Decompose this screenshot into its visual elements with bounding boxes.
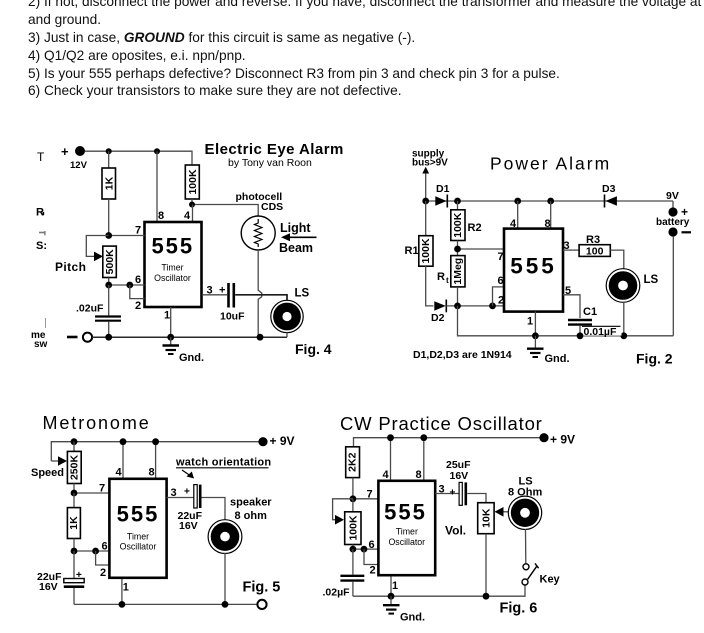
svg-text:10uF: 10uF [220, 311, 245, 323]
node pin8 top [154, 148, 160, 154]
svg-text:Vol.: Vol. [445, 524, 466, 538]
node pin1 MT [119, 601, 126, 608]
op 555 U-PA box [504, 229, 563, 312]
capacitor 25uF [459, 482, 466, 505]
svg-text:3: 3 [564, 240, 570, 252]
label supply bus [412, 149, 448, 169]
svg-text:bus>9V: bus>9V [412, 158, 448, 169]
pin 1 lead [164, 307, 171, 337]
svg-text:S:: S: [36, 240, 47, 252]
wire cap to speaker MT [202, 498, 226, 521]
diode D2 [431, 300, 446, 325]
resistor 1K [102, 168, 116, 199]
svg-text:555: 555 [117, 502, 160, 527]
svg-text:Gnd.: Gnd. [179, 352, 204, 364]
pin 7 wire CW [353, 489, 379, 501]
svg-text:7: 7 [135, 225, 141, 237]
svg-text:8: 8 [149, 467, 155, 479]
svg-text:3: 3 [207, 285, 213, 297]
node cap bottom [105, 334, 112, 341]
wire D2 to pin2 [446, 305, 504, 307]
svg-text:1K: 1K [68, 516, 80, 530]
svg-text:by Tony van Roon: by Tony van Roon [228, 157, 312, 169]
pin 2 wire MT [96, 551, 110, 579]
wire pot bottom CW [352, 545, 354, 550]
capacitor 22uF MT left [37, 551, 84, 604]
wire top bus [426, 200, 673, 202]
wire Rt bottom [457, 287, 459, 306]
svg-text:Fig. 2: Fig. 2 [636, 351, 673, 367]
svg-text:4: 4 [116, 467, 123, 479]
terminal open MT [257, 600, 266, 609]
svg-text:LS: LS [644, 274, 659, 286]
resistor 2K2 [346, 447, 360, 478]
svg-text:LS: LS [295, 288, 310, 300]
terminal +9V CW [539, 433, 575, 447]
node pin8 top [547, 198, 554, 205]
node D2/Rt [454, 303, 461, 310]
wire 1K bottom [73, 539, 75, 552]
pin 4 lead CW [383, 438, 391, 481]
svg-text:2: 2 [100, 567, 106, 579]
labels 25uF 16V [446, 459, 471, 482]
svg-text:5: 5 [565, 285, 571, 297]
pin 5 wire [563, 285, 580, 318]
node 10K bottom [483, 593, 490, 600]
speaker LS [271, 288, 310, 333]
wire cap to pot CW [467, 494, 486, 503]
svg-text:100K: 100K [420, 238, 432, 264]
op 555 U-CW box [378, 481, 435, 575]
svg-text:C1: C1 [583, 306, 597, 318]
svg-text:6: 6 [102, 541, 108, 553]
svg-text:2: 2 [135, 300, 141, 312]
svg-text:battery: battery [656, 217, 690, 228]
wire pot bottom [108, 278, 110, 286]
pin 7 wire [109, 225, 145, 237]
svg-text:1K: 1K [103, 176, 115, 190]
resistor 1K MT [67, 493, 80, 539]
svg-text:1: 1 [392, 580, 398, 592]
op 555 U-EE box [145, 222, 202, 307]
node photocell bottom [257, 334, 264, 341]
svg-text:Gnd.: Gnd. [400, 612, 425, 624]
svg-text:4: 4 [383, 469, 390, 481]
svg-text:7: 7 [367, 489, 373, 501]
svg-text:0.01µF: 0.01µF [584, 326, 617, 338]
svg-text:Timer: Timer [396, 527, 418, 537]
node R2/Rt [454, 246, 461, 253]
wire bottom rail [92, 336, 287, 338]
svg-text:R2: R2 [468, 222, 482, 234]
ground [163, 337, 205, 364]
speaker CW [508, 496, 541, 529]
svg-text:16V: 16V [450, 470, 469, 482]
svg-text:3: 3 [439, 484, 445, 496]
svg-text:6: 6 [369, 539, 375, 551]
svg-text:+ 9V: + 9V [550, 433, 575, 447]
node ground [167, 334, 174, 341]
svg-text:Oscillator: Oscillator [154, 273, 191, 283]
wire battery minus down [672, 237, 674, 336]
capacitor .02uF [76, 285, 121, 337]
svg-text:Power Alarm: Power Alarm [490, 153, 611, 173]
node pin2 branch MT [92, 548, 99, 555]
svg-text:D1: D1 [436, 183, 450, 195]
svg-text:Fig. 6: Fig. 6 [500, 601, 538, 617]
capacitor .02uF CW [323, 549, 365, 598]
svg-text:2: 2 [370, 565, 376, 577]
pin 6 wire [109, 274, 145, 286]
svg-text:100K: 100K [187, 169, 199, 195]
svg-text:2K2: 2K2 [347, 452, 359, 471]
svg-text:8: 8 [158, 210, 164, 222]
node pin4 CW [387, 434, 394, 441]
node pin6/pot [105, 282, 112, 289]
svg-text:Beam: Beam [279, 241, 313, 255]
svg-text:T: T [37, 150, 45, 164]
svg-text:Electric Eye Alarm: Electric Eye Alarm [205, 141, 344, 158]
svg-text:1: 1 [123, 582, 129, 594]
capacitor 10uF [220, 283, 245, 323]
svg-text:100K: 100K [347, 515, 359, 541]
svg-text:.02µF: .02µF [323, 587, 351, 599]
svg-text:555: 555 [384, 500, 427, 525]
svg-text:.02uF: .02uF [76, 303, 104, 315]
pot wiper arrow CW [333, 499, 353, 525]
wire speaker bottom [286, 333, 288, 338]
svg-text:Timer: Timer [127, 532, 149, 542]
diode D1 [435, 183, 449, 208]
potentiometer 250K [31, 442, 81, 484]
wire 10K bottom CW [485, 534, 487, 597]
svg-text:R1: R1 [405, 245, 419, 257]
svg-text:Gnd.: Gnd. [545, 353, 570, 365]
wire 1K to pin7 node [108, 199, 110, 236]
wire R1 to D2 [426, 266, 434, 306]
pin 8 lead [545, 201, 551, 230]
wire photocell down with jog [258, 250, 262, 337]
node pin4 MT [120, 438, 127, 445]
svg-text:Oscillator: Oscillator [388, 537, 425, 547]
svg-text:10K: 10K [480, 508, 492, 528]
pin 6 wire [74, 541, 109, 553]
svg-text:+ 9V: + 9V [270, 434, 295, 448]
svg-text:+: + [184, 487, 190, 498]
svg-text:8: 8 [416, 469, 422, 481]
pin 2 wire [130, 285, 145, 312]
pot arrow from speaker [495, 507, 509, 517]
svg-text:speaker: speaker [230, 497, 272, 509]
resistor 100K [185, 165, 199, 199]
svg-text:16V: 16V [179, 520, 198, 532]
photocell CDS [236, 191, 284, 250]
pin 6 wire CW [353, 539, 379, 551]
potentiometer 500K [55, 246, 116, 277]
wire R3 to LS [610, 250, 624, 269]
node D1 cathode [454, 198, 461, 205]
svg-text:R: R [437, 271, 445, 283]
svg-text:100K: 100K [452, 212, 464, 238]
diode D3 [602, 183, 617, 208]
svg-text:Oscillator: Oscillator [120, 542, 157, 552]
node pot/1K [71, 490, 78, 497]
svg-text:6: 6 [135, 274, 141, 286]
node pot bottom CW [350, 546, 357, 553]
wire speaker to key [525, 529, 527, 564]
node pin1 CW [388, 593, 395, 600]
svg-text:1: 1 [527, 316, 533, 328]
svg-text:1: 1 [164, 310, 170, 322]
svg-text:7: 7 [99, 483, 105, 495]
potentiometer 10K [478, 503, 494, 534]
wire R2 bottom / pin7 [458, 241, 505, 264]
ground CW [383, 596, 425, 623]
svg-text:Speed: Speed [31, 467, 64, 479]
wire pot bottom to pin7 [73, 484, 75, 494]
wire 100K to photocell [192, 199, 258, 216]
svg-text:Fig. 4: Fig. 4 [295, 341, 332, 357]
node pin1 gnd [532, 332, 539, 339]
node LS bottom [620, 332, 627, 339]
node 1K top [106, 148, 112, 154]
label LS 8 Ohm [508, 476, 542, 499]
node pot top [71, 438, 78, 445]
svg-text:D3: D3 [602, 183, 616, 195]
svg-text:1Meg: 1Meg [452, 258, 464, 285]
switch Key [522, 563, 561, 585]
svg-text:250K: 250K [68, 455, 80, 481]
svg-text:+: + [219, 285, 225, 297]
svg-text:3: 3 [171, 487, 177, 499]
pin 3 wire [563, 240, 579, 252]
label 9V battery [656, 190, 691, 237]
pin 7 wire [74, 483, 109, 495]
node 1K/cap [71, 548, 78, 555]
pin 8 lead [157, 151, 164, 222]
top instruction text [28, 0, 704, 9]
svg-text:8 ohm: 8 ohm [235, 510, 268, 522]
terminal +9V [258, 434, 294, 448]
node pin8 MT [152, 438, 159, 445]
svg-text:+: + [61, 144, 69, 159]
pot wiper arrow [86, 236, 108, 262]
op 555 U-MT box [109, 479, 166, 578]
wire supply arrow [422, 167, 429, 201]
node speaker bottom MT [222, 601, 229, 608]
resistor R1 [405, 201, 434, 266]
svg-text:9V: 9V [666, 190, 679, 202]
svg-text:D2: D2 [431, 312, 445, 324]
svg-text:D1,D2,D3 are 1N914: D1,D2,D3 are 1N914 [413, 349, 512, 361]
pin 4 lead [510, 201, 518, 230]
svg-text:555: 555 [510, 254, 557, 279]
potentiometer 100K CW [345, 499, 361, 545]
resistor R2 [451, 201, 482, 241]
svg-text:Metronome: Metronome [43, 413, 151, 433]
label watch orientation [175, 457, 271, 479]
node 100K bottom [189, 202, 195, 208]
wire bottom rail MT [74, 603, 257, 605]
node pin8 CW [420, 434, 427, 441]
svg-text:4: 4 [184, 210, 191, 222]
wire speaker down MT [224, 553, 226, 605]
svg-text:CDS: CDS [261, 201, 283, 213]
node pin4 top [514, 198, 521, 205]
pin 4 lead MT [116, 442, 124, 479]
capacitor 22uF MT out [178, 485, 203, 532]
svg-text:100: 100 [586, 246, 604, 258]
svg-text:Light: Light [280, 221, 311, 235]
pin 8 lead MT [149, 442, 156, 479]
node pin6 branch [489, 303, 496, 310]
terminal + 12V [61, 144, 88, 171]
svg-text:t: t [446, 276, 449, 285]
pin 1 lead MT [122, 578, 129, 605]
pin 4 lead [184, 205, 193, 223]
title Electric Eye Alarm [205, 141, 344, 169]
pin 6 wire [493, 275, 505, 307]
resistor R3 [579, 234, 610, 258]
pin 3 wire [202, 285, 227, 297]
wire 1K top stub [108, 151, 110, 168]
svg-text:16V: 16V [39, 581, 58, 593]
speaker LS PA [606, 269, 658, 303]
wire bottom rail CW [353, 585, 525, 596]
pin 2 wire CW [364, 549, 378, 576]
wire cap to speaker [235, 295, 287, 301]
ground PA [527, 336, 570, 365]
pot wiper arrow [51, 456, 67, 466]
wire top rail [85, 151, 192, 167]
svg-text:Pitch: Pitch [55, 260, 86, 274]
wire D2 node down to bottom rail [458, 306, 674, 336]
wire 2K2 bottom [352, 478, 354, 499]
pin 3 wire MT [167, 487, 194, 500]
terminal minus [67, 333, 92, 342]
node supply [422, 198, 429, 205]
node pin2 branch CW [361, 546, 368, 553]
node pin7/pot [105, 232, 112, 239]
left margin text fragments [31, 150, 48, 350]
svg-text:Key: Key [540, 574, 561, 586]
pin 1 lead [527, 312, 535, 336]
pin 8 lead CW [416, 438, 424, 481]
pin 1 lead CW [391, 575, 398, 596]
wire top rail [51, 442, 258, 461]
svg-text:Fig. 5: Fig. 5 [243, 580, 281, 596]
wire top rail CW [354, 438, 540, 447]
node 2K2/pot [350, 495, 357, 502]
node C1 bottom [577, 332, 584, 339]
label Light Beam arrow [279, 221, 317, 255]
resistor Rt 1Meg [437, 256, 465, 287]
svg-text:555: 555 [151, 234, 194, 259]
svg-text:sw: sw [34, 339, 48, 350]
svg-text:+: + [450, 488, 456, 499]
node pin2 branch [126, 282, 133, 289]
pin 3 wire CW [435, 484, 459, 499]
wire LS down [623, 302, 625, 336]
svg-text:500K: 500K [104, 249, 116, 275]
svg-text:12V: 12V [70, 160, 88, 171]
svg-text:CW Practice Oscillator: CW Practice Oscillator [340, 413, 543, 434]
svg-text:Timer: Timer [161, 263, 183, 273]
capacitor C1 [568, 306, 622, 338]
speaker MT [208, 520, 242, 554]
label speaker 8 ohm [230, 497, 272, 523]
svg-text:watch orientation: watch orientation [175, 457, 271, 469]
